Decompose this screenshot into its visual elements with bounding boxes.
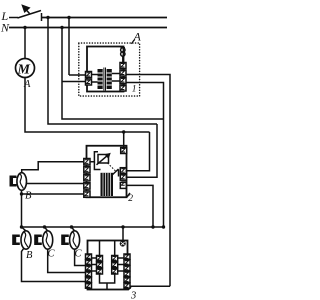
- junction dot x123 on rail: [121, 225, 124, 228]
- wire N line: [9, 27, 167, 29]
- svg-text:N: N: [0, 21, 10, 35]
- wire B door station riser: [22, 227, 26, 231]
- junction dot on N at x25 (motor branch): [23, 26, 26, 29]
- junction dot rail at C2: [70, 225, 73, 228]
- svg-text:A: A: [23, 79, 31, 90]
- unit 2 top right terminal: [121, 148, 127, 154]
- wire N x62 branch into PSU lower input terminal: [62, 81, 86, 83]
- junction dot on L at x48: [46, 16, 49, 19]
- switch S1 blade: [18, 11, 42, 19]
- svg-text:M: M: [17, 63, 31, 78]
- wire motor branch lower + staircase to right: [25, 78, 150, 133]
- svg-text:2: 2: [128, 194, 133, 204]
- distribution unit 3 body: [88, 241, 128, 290]
- wire handset B bottom down to door-station rail: [21, 190, 23, 227]
- wire C1 riser: [45, 227, 48, 231]
- wire L line right segment: [42, 17, 168, 19]
- wire block2 top terminal riser: [123, 132, 125, 147]
- unit 3 middle column B hanger: [114, 241, 116, 256]
- svg-text:C: C: [75, 249, 83, 260]
- relay unit 2 body: [87, 146, 127, 198]
- unit 2 left terminal 2: [84, 167, 90, 173]
- unit 2 contact dashed link: [108, 163, 116, 171]
- unit 2 left terminal 1: [84, 159, 90, 165]
- junction dot rail into right vertical: [162, 225, 165, 228]
- wire PSU secondary to right terminals: [112, 74, 121, 82]
- switch S1 fixed contact tick: [41, 13, 43, 21]
- unit 2 internal wire down branch: [94, 162, 100, 170]
- wire vertical from N x62 staircase: [62, 28, 164, 120]
- svg-text:B: B: [26, 250, 33, 261]
- unit 3 label leader tick: [128, 287, 131, 290]
- junction dot x153 on rail: [151, 225, 154, 228]
- motor A circle: [16, 59, 35, 78]
- junction dot on L at x69: [67, 16, 70, 19]
- junction dot rail at C1: [43, 225, 46, 228]
- wire PSU output lower to right vertical: [126, 83, 164, 228]
- wire buzzer to right terminal row1: [122, 56, 124, 63]
- unit 2 left terminal 4: [84, 183, 90, 189]
- unit 2 right terminal 3: [120, 182, 126, 189]
- unit 2 electromagnet coil block: [101, 173, 114, 196]
- switch S1 actuator arrow: [23, 6, 30, 14]
- unit 3 top right screw symbol: [120, 241, 126, 247]
- intercom B (flat) bracket: [10, 176, 17, 187]
- unit 3 middle column A hanger: [99, 241, 101, 256]
- wire x157 down into block2 right terminal 2: [127, 124, 158, 177]
- power supply unit 1 body: [87, 47, 124, 92]
- wire handset B middle to block2: [27, 183, 86, 185]
- unit 2 left terminal 5: [84, 191, 90, 197]
- PSU transformer core: [104, 68, 106, 91]
- intercom C1 handset: [43, 231, 53, 249]
- svg-text:C: C: [48, 249, 56, 260]
- intercom B (door station) bracket: [12, 235, 20, 246]
- junction dot rail at B riser: [20, 225, 23, 228]
- PSU transformer primary winding: [98, 69, 103, 89]
- wire top rail of door stations: [22, 226, 164, 228]
- wire handset B top to block2 top edge: [22, 162, 86, 173]
- unit 3 internal drop to bottom: [106, 283, 108, 290]
- power supply buzzer symbol (figure 8): [121, 48, 126, 56]
- unit 2 label leader tick: [127, 193, 130, 197]
- unit 3 left terminal column: [86, 254, 92, 288]
- wire block3 top terminal drop from rail: [122, 227, 124, 241]
- wire block2 right terminal 3 down to door rail: [127, 185, 154, 227]
- junction dot handset B bottom tap: [20, 192, 23, 195]
- intercom C2 bracket: [61, 235, 69, 246]
- unit 2 left terminal 3: [84, 175, 90, 181]
- wire PSU primary to terminals: [92, 75, 98, 83]
- dashed enclosure box A: [79, 43, 140, 96]
- PSU right terminal row1: [120, 63, 126, 69]
- PSU left terminal L: [86, 72, 92, 78]
- intercom B (door station) handset: [21, 231, 31, 249]
- unit 2 relay arrow: [97, 154, 110, 165]
- wire C2 drop to block3: [75, 249, 87, 265]
- unit 3 internal stubs left: [92, 258, 97, 271]
- svg-text:A: A: [133, 30, 142, 44]
- wire L line left segment: [9, 17, 18, 19]
- unit 3 middle terminal column A: [97, 256, 103, 275]
- PSU right terminal row4: [120, 85, 126, 91]
- intercom B (flat) handset: [17, 173, 27, 191]
- unit 2 right terminal 1: [120, 168, 126, 174]
- unit 3 right terminal column: [124, 254, 130, 288]
- unit 2 right terminal 2: [120, 174, 126, 180]
- svg-text:1: 1: [132, 85, 137, 95]
- wire x69 to PSU upper input terminal: [69, 74, 86, 76]
- wire B door station drop to block3: [22, 248, 88, 282]
- unit 2 contact blade: [111, 169, 119, 177]
- svg-text:B: B: [25, 191, 32, 202]
- wire handset B bottom tap to block2: [22, 193, 86, 195]
- PSU left terminal N: [86, 79, 92, 85]
- PSU right terminal row2: [120, 70, 126, 76]
- junction dot x123.7 y129.8: [122, 130, 125, 133]
- wire staircase vertical x150.7 down to block2 right row1: [127, 132, 150, 171]
- wire C2 riser: [72, 227, 75, 231]
- junction dot on N at x62: [60, 26, 63, 29]
- wire vertical from L x69 down: [68, 18, 70, 76]
- svg-text:3: 3: [130, 291, 136, 300]
- PSU right terminal row3: [120, 78, 126, 84]
- unit 3 internal lower frame: [100, 274, 115, 283]
- enclosure label A leader tick: [131, 39, 135, 44]
- wire x170 bottom entry into block3 right side: [125, 285, 170, 287]
- PSU transformer secondary winding: [107, 69, 112, 89]
- unit 3 internal stubs right: [118, 258, 124, 271]
- wire PSU output upper to right vertical: [126, 75, 170, 287]
- wire vertical from L x48 staircase: [48, 18, 157, 125]
- unit 2 internal wire from left terminal 1: [90, 152, 98, 162]
- intercom C1 bracket: [34, 235, 42, 246]
- unit 3 middle terminal column B: [112, 256, 118, 275]
- intercom C2 handset: [70, 231, 80, 249]
- unit 2 relay coil: [98, 155, 109, 164]
- wire C1 drop to block3: [48, 249, 87, 272]
- wire motor branch upper: [24, 28, 26, 59]
